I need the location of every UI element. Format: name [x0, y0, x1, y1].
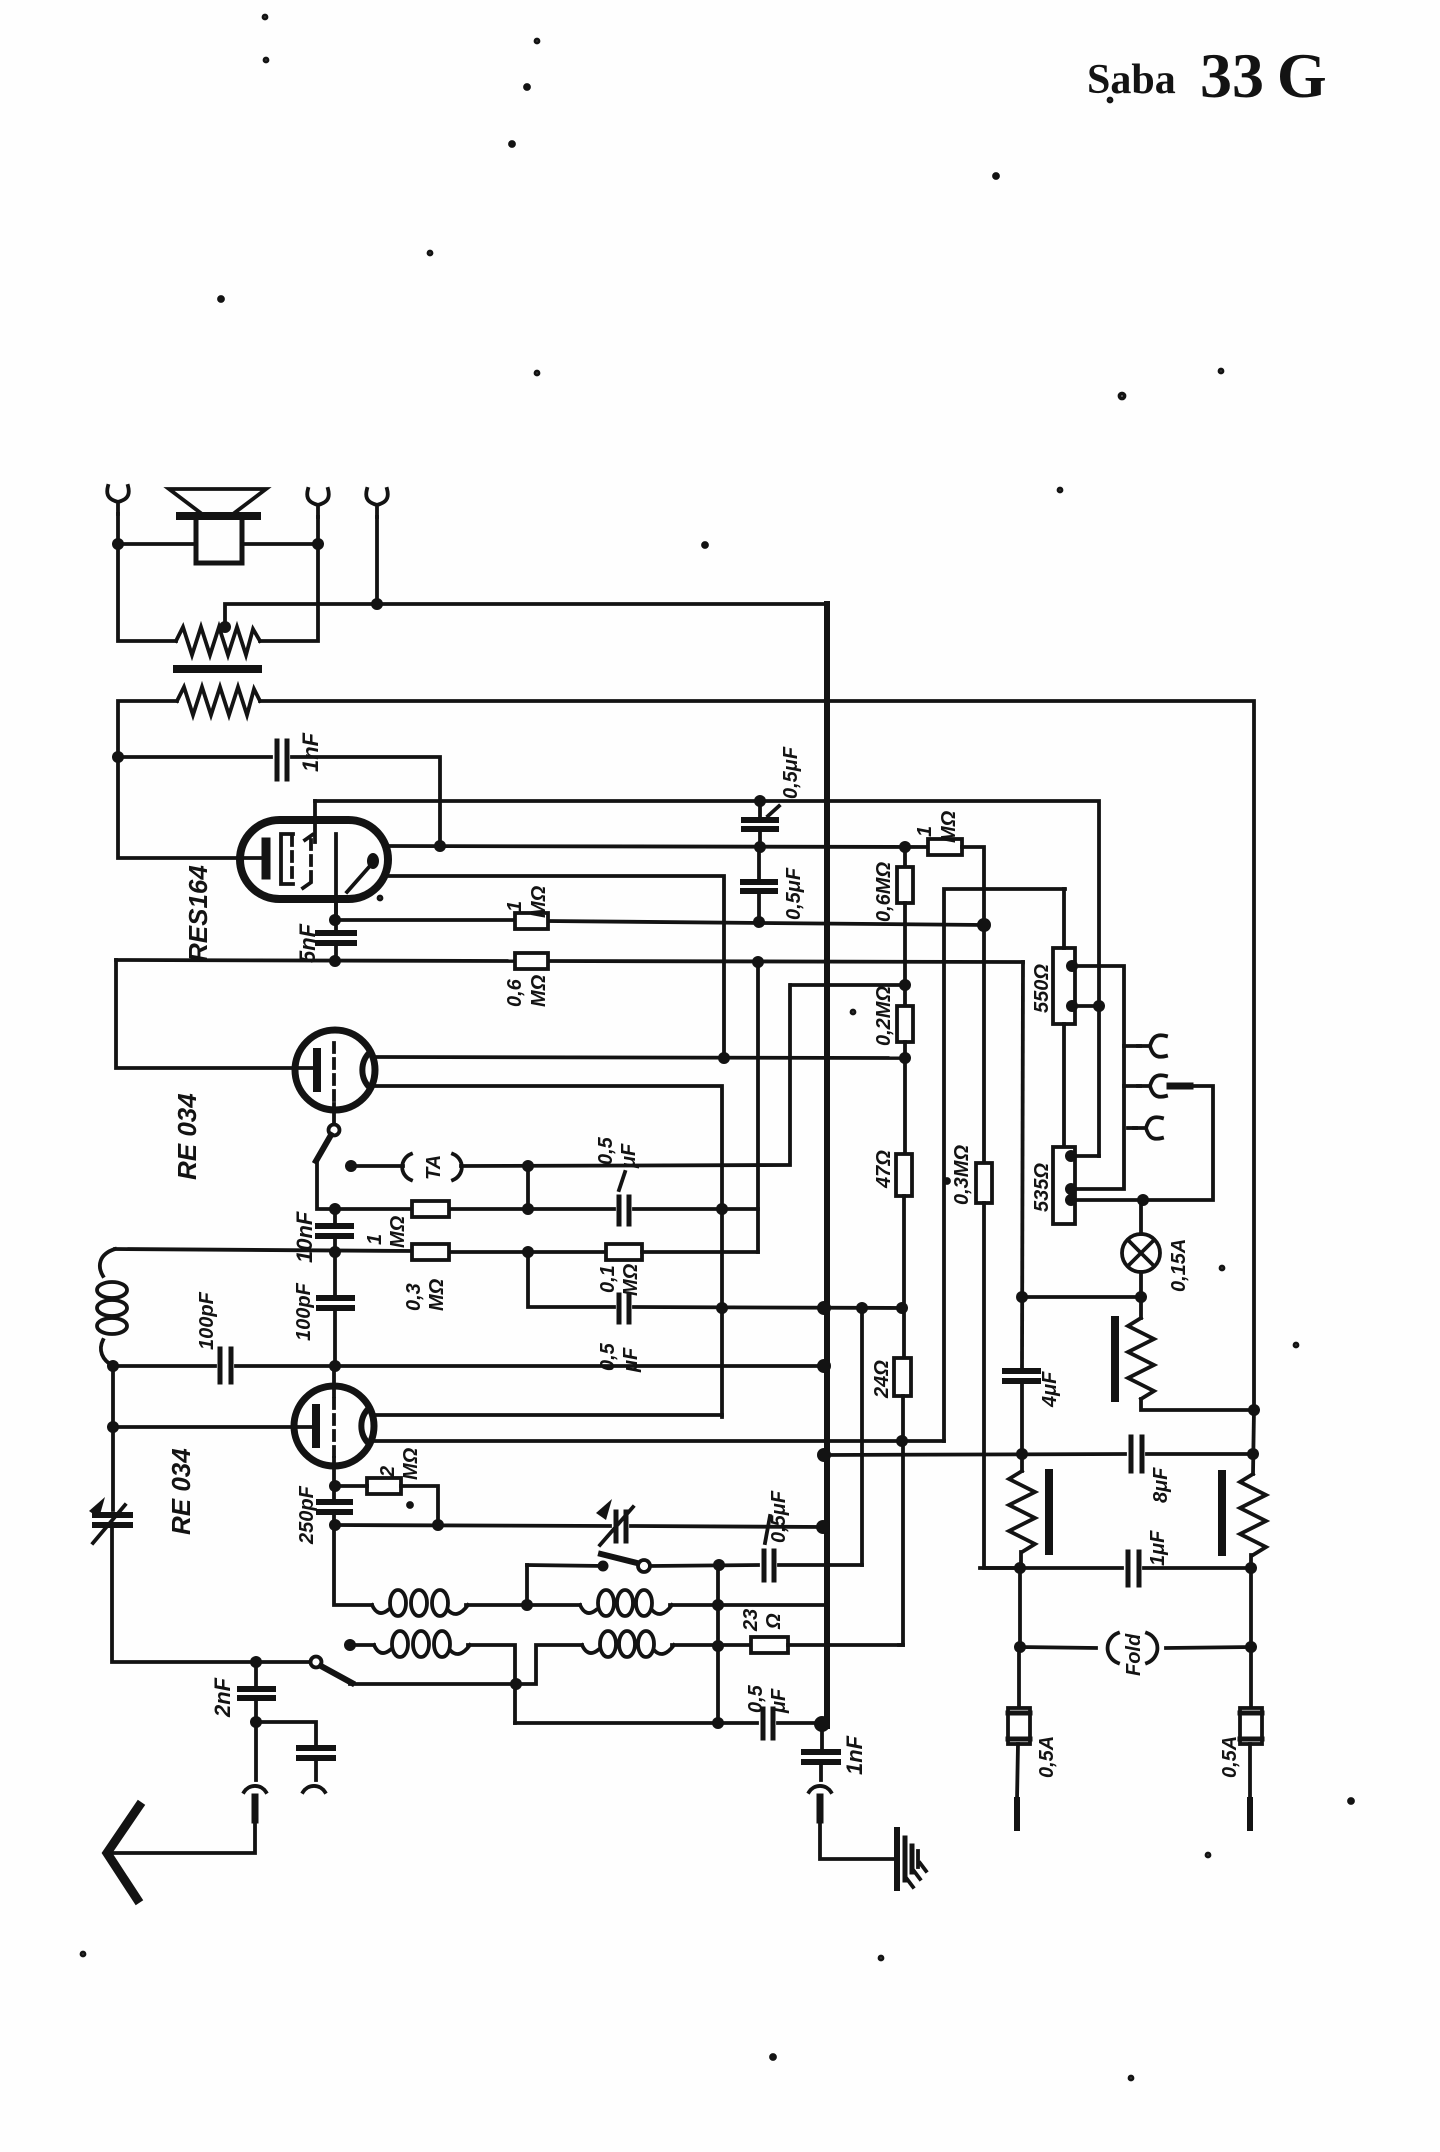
tube RES164 cathode: [262, 842, 271, 875]
wire x528 0,3M-0,5uF link: [528, 1252, 614, 1307]
terminal TA right arc: [453, 1154, 462, 1180]
tube RE034-2 envelope: [295, 1030, 375, 1110]
wire 0,6M chain top: [903, 847, 907, 867]
wire y=1297 4uF link: [1022, 1295, 1141, 1299]
svg-text:0,5: 0,5: [595, 1136, 617, 1165]
resistor 0,3MOhm (y1252): [412, 1244, 449, 1260]
resistor 24Ohm (x902): [894, 1358, 911, 1396]
svg-text:μF: μF: [618, 1143, 640, 1169]
antenna symbol: [107, 1806, 139, 1899]
svg-text:MΩ: MΩ: [528, 974, 550, 1007]
wire y=1568 row: [980, 1566, 1122, 1570]
svg-text:1nF: 1nF: [842, 1735, 867, 1775]
switch S3 lever: [321, 1666, 352, 1683]
wire lamp top: [1139, 1200, 1143, 1234]
wire to left fuse: [1017, 1647, 1021, 1708]
svg-text:24Ω: 24Ω: [871, 1360, 893, 1399]
terminal jack2: [1138, 1075, 1166, 1097]
svg-text:0,6: 0,6: [504, 978, 526, 1007]
wire right drop to pot: [260, 544, 318, 641]
switch S2 (band) contact: [598, 1561, 609, 1572]
svg-text:0,5μF: 0,5μF: [780, 746, 802, 799]
wire 1nF right to grid cap line: [292, 757, 440, 846]
mains lead end right: [1247, 1800, 1253, 1828]
tube RES164 top pin: [313, 801, 317, 842]
svg-text:0,3MΩ: 0,3MΩ: [951, 1145, 973, 1205]
wire y=1252 grid row 2: [115, 1249, 412, 1251]
capacitor 0,5uF (B): [743, 882, 775, 891]
capacitor 100pF (y1365): [220, 1349, 231, 1382]
terminal jack1: [1138, 1035, 1166, 1057]
svg-text:23: 23: [740, 1609, 762, 1632]
svg-text:8μF: 8μF: [1150, 1467, 1172, 1503]
wire lamp bottom: [1139, 1272, 1143, 1318]
wire cap to bus: [778, 1721, 825, 1725]
wire y=1454 filter row: [824, 1454, 1125, 1455]
wire 10nF to y1252: [333, 1238, 337, 1252]
wire y=961 line: [116, 960, 515, 961]
tube RE034-2 anode arc: [362, 1052, 370, 1088]
terminal jack3: [1134, 1117, 1162, 1139]
arrow trimmer: [600, 1507, 633, 1545]
resistor 0,3MOhm (x984): [976, 1163, 992, 1203]
wire Fold row left: [1020, 1647, 1096, 1648]
wire 10nF stem: [333, 1209, 337, 1224]
wire 1uF right: [1144, 1566, 1251, 1570]
plug pin jack2: [1170, 1083, 1190, 1090]
wire L3a lead: [350, 1643, 374, 1647]
wire jack1 lead: [1124, 1044, 1140, 1048]
svg-text:0,5A: 0,5A: [1219, 1736, 1241, 1778]
switch S3 (antenna) circle: [311, 1657, 322, 1668]
speaker LS: [169, 489, 266, 563]
svg-text:33 G: 33 G: [1200, 40, 1327, 111]
resistor R-heater-left zigzag: [1009, 1471, 1035, 1552]
tube RE034-1 cathode wire: [113, 1425, 312, 1429]
socket arc (antenna jack): [244, 1786, 266, 1792]
wire jack3 stub: [1128, 1126, 1136, 1130]
tube RE034-1 anode arc: [361, 1408, 369, 1444]
tube RES164 grid dashed: [290, 836, 294, 884]
tube RES164 grid bracket: [281, 834, 293, 884]
terminal T3: [366, 489, 388, 517]
capacitor 0,5uF (y1565): [764, 1551, 774, 1580]
wire S3 to coil jog: [350, 1682, 515, 1686]
wire T2 stem: [316, 517, 320, 544]
wire 550 top lead: [1062, 889, 1066, 948]
wire 100pF to y1365: [333, 1310, 337, 1365]
wire x1251 to Fold row: [1249, 1555, 1253, 1708]
wire 550 to 535: [1062, 1024, 1066, 1147]
wire x516 down to y1723: [513, 1684, 517, 1723]
potentiometer 535Ohm: [1053, 1147, 1075, 1224]
svg-text:Saba: Saba: [1087, 57, 1176, 103]
coil L3a: [374, 1645, 390, 1653]
switch S1 lever: [316, 1135, 331, 1161]
wire 2nF node to jack: [254, 1722, 258, 1780]
mains lead end left: [1014, 1800, 1020, 1828]
tube RE034-2 grid dashed: [332, 1043, 336, 1104]
wire 550 upper tap: [1075, 966, 1124, 1189]
wire y=921 line: [336, 918, 515, 922]
wire 100pF stem: [333, 1252, 337, 1295]
wire 2nF stems: [254, 1662, 258, 1687]
coil L1 (antenna): [100, 1249, 115, 1276]
terminal TA left arc: [402, 1154, 411, 1180]
wire y=1086 to x722 drop: [373, 1086, 722, 1417]
svg-text:MΩ: MΩ: [620, 1263, 642, 1296]
resistor 0,1MOhm (y1252): [606, 1244, 642, 1260]
wire jog up to L3b: [515, 1645, 582, 1684]
wire TA lead: [351, 1164, 403, 1168]
tube RE034-2 cathode: [313, 1052, 321, 1088]
wire 535 upper tap: [1075, 1154, 1099, 1158]
resistor R-lamp zigzag: [1128, 1318, 1154, 1399]
wire fuse to mains stub: [1017, 1744, 1018, 1800]
wire y=1209 grid row: [449, 1207, 614, 1211]
wire 5nF stems: [334, 899, 338, 931]
wire left vertical lower: [111, 1366, 115, 1510]
svg-text:1μF: 1μF: [1147, 1530, 1169, 1566]
svg-text:Ω: Ω: [763, 1613, 785, 1630]
svg-text:100pF: 100pF: [196, 1291, 218, 1350]
svg-text:0,3: 0,3: [403, 1283, 425, 1311]
resistor 1MOhm (y846): [928, 839, 962, 855]
wire y=1415 pin to x722: [373, 1413, 722, 1417]
wire zigzag2 left down: [118, 701, 177, 757]
tube RES164 anode lead down: [334, 834, 338, 920]
trimmer capacitor (y1526): [616, 1512, 626, 1541]
svg-text:1: 1: [914, 826, 936, 837]
wire 535 bottom tap row: [1075, 1086, 1213, 1200]
variable capacitor C-tune: [95, 1515, 130, 1525]
wire 2M right corner: [401, 1486, 438, 1525]
fuse F1 0,5A: [1008, 1708, 1030, 1744]
wire x718 common vertical: [716, 1565, 720, 1723]
node dots: [112, 538, 124, 550]
resistor 1MOhm (y921): [515, 913, 548, 929]
wire y=876 to 0,2M node: [388, 876, 724, 1058]
svg-text:0,2MΩ: 0,2MΩ: [873, 986, 895, 1046]
capacitor 10nF: [318, 1226, 351, 1236]
wire 24 down corner to 23 row: [899, 1396, 903, 1645]
wire 0,5uF B stems: [757, 847, 761, 880]
wire speaker row y=544: [118, 542, 196, 546]
svg-text:0,6MΩ: 0,6MΩ: [873, 862, 895, 922]
plug pin (earth): [817, 1797, 824, 1820]
capacitor 8uF: [1131, 1437, 1142, 1471]
wire switch node x527: [525, 1565, 529, 1605]
svg-text:MΩ: MΩ: [400, 1447, 422, 1480]
switch S2 circle: [638, 1560, 650, 1572]
wire jack2 lead: [1124, 1084, 1140, 1088]
wire x=1254 right main vertical: [1253, 1410, 1254, 1474]
wire left drop to RE034-2 cathode: [116, 960, 313, 1068]
socket arc (earth jack): [809, 1786, 831, 1792]
coil L3b: [582, 1645, 598, 1653]
svg-text:0,5A: 0,5A: [1036, 1736, 1058, 1778]
tube RES164 grid cap dot: [367, 853, 379, 869]
switch S2 lever: [601, 1554, 637, 1563]
wire 550 lower tap: [1075, 1004, 1099, 1008]
wire y=846 grid-cap line: [388, 846, 928, 847]
wire 47 to 24: [902, 1196, 906, 1358]
wire y=1057 anode RE034-2: [373, 1057, 905, 1058]
svg-text:0,15A: 0,15A: [1168, 1239, 1190, 1292]
fuse F2 0,5A: [1240, 1708, 1262, 1744]
wire zigzag to x1254: [1141, 1399, 1254, 1410]
wire x=944 vertical: [944, 889, 1065, 1441]
svg-text:μF: μF: [768, 1688, 790, 1714]
wire 1nF to jack: [819, 1764, 823, 1780]
tube RES164 screen grid: [303, 833, 315, 888]
wire 0,1M to corner x758: [642, 1250, 758, 1254]
svg-text:0,5: 0,5: [597, 1342, 619, 1371]
wire L2b to bus: [670, 1603, 826, 1607]
wire y=1565 band row: [527, 1565, 603, 1566]
wire y=1441 line (RE034-1 lower pin): [373, 1439, 944, 1443]
potentiometer 550Ohm: [1053, 948, 1075, 1024]
capacitor 250pF: [319, 1502, 350, 1512]
svg-text:0,1: 0,1: [597, 1265, 619, 1293]
wire 100pF right to bus: [236, 1364, 824, 1368]
wire 8uF right: [1147, 1452, 1253, 1456]
svg-text:RES164: RES164: [183, 865, 213, 962]
wire x=1022 rectifier chain top: [1022, 962, 1023, 1369]
svg-text:1nF: 1nF: [298, 732, 323, 772]
capacitor 100pF (x335): [319, 1298, 352, 1308]
resistor 0,6MOhm (x905): [897, 867, 913, 903]
capacitor 0,5uF (A): [744, 820, 776, 829]
socket arc (branch): [303, 1786, 325, 1792]
svg-text:0,5μF: 0,5μF: [783, 867, 805, 920]
svg-text:MΩ: MΩ: [528, 885, 550, 918]
resistor 2MOhm: [367, 1478, 401, 1494]
wire cap to x862 corner: [779, 1563, 862, 1567]
wire x862 link: [860, 1308, 864, 1565]
wire 0,2M to 47: [903, 1042, 907, 1154]
wire bus bottom to 1nF: [820, 1726, 824, 1750]
capacitor 4uF: [1005, 1371, 1038, 1381]
capacitor 0,5uF (y1209): [619, 1197, 629, 1224]
slider bar lamp: [1111, 1320, 1119, 1398]
resistor R-field (speaker zigzag 2): [177, 687, 260, 715]
terminal T1 (speaker left): [107, 486, 129, 514]
wire zigzag to y1568: [1019, 1552, 1023, 1568]
svg-text:RE 034: RE 034: [172, 1093, 202, 1180]
wire x758 vertical: [756, 962, 760, 1252]
capacitor 5nF: [318, 933, 354, 943]
wire T3 stem: [375, 517, 379, 604]
wire y1308 to bus and 24Ohm: [634, 1307, 902, 1308]
wire zigzag2 right long to right column: [260, 701, 1254, 1410]
arrow C-tune: [93, 1505, 125, 1543]
svg-text:4μF: 4μF: [1039, 1371, 1061, 1408]
wire plug to antenna: [110, 1820, 255, 1853]
wire 250pF node down to coil: [334, 1525, 372, 1605]
capacitor 0,5uF (y1307): [619, 1295, 629, 1322]
svg-text:μF: μF: [620, 1347, 642, 1373]
wire left drop to pot: [118, 544, 176, 641]
slider bar left: [1045, 1473, 1053, 1551]
svg-text:MΩ: MΩ: [426, 1278, 448, 1311]
resistor 1MOhm (y1209): [412, 1201, 449, 1217]
capacitor 2nF: [240, 1689, 273, 1698]
tube RE034-1 cathode: [312, 1408, 320, 1444]
wire 0,6M to 0,2M: [903, 903, 907, 1006]
tube RE034-2 grid lead to switch: [332, 1104, 336, 1124]
terminal Fold right arc: [1147, 1633, 1157, 1663]
svg-text:250pF: 250pF: [296, 1485, 318, 1545]
wire y=1365 row: [113, 1364, 215, 1368]
svg-text:MΩ: MΩ: [387, 1215, 409, 1248]
slider bar right: [1218, 1474, 1226, 1552]
switch S1 (gramophone) circle: [329, 1125, 340, 1136]
svg-text:100pF: 100pF: [293, 1282, 315, 1341]
terminal T2: [307, 489, 329, 517]
tube RES164 grid diagonal: [347, 867, 369, 892]
plug pin (antenna): [252, 1797, 259, 1820]
wire 0,3M down to 1uF row: [984, 1203, 1020, 1568]
wire x1021 down to Fold row: [1018, 1568, 1022, 1647]
wire y=1526 row to bus: [334, 1525, 610, 1526]
capacitor C-earth branch: [299, 1748, 333, 1758]
wire 4uF down: [1020, 1383, 1024, 1471]
capacitor 1nF (earth): [804, 1752, 838, 1762]
wire L3a to jog: [468, 1645, 515, 1684]
wire fuse to mains stub right: [1248, 1744, 1252, 1800]
wire y=1723 row: [515, 1721, 757, 1725]
resistor 0,2MOhm (x905): [897, 1006, 913, 1042]
svg-text:MΩ: MΩ: [938, 810, 960, 843]
ground chassis: [897, 1830, 926, 1888]
tube RE034-1 envelope: [294, 1386, 374, 1466]
wire L3b to 23Ohm: [672, 1643, 751, 1647]
tube RES164 envelope: [240, 820, 388, 899]
wire 2nF node to cap branch: [256, 1722, 316, 1744]
svg-text:2nF: 2nF: [210, 1677, 235, 1718]
wire 250pF stems: [332, 1486, 336, 1500]
wire 0,5uF to x758: [634, 1207, 758, 1211]
wire y=985 TA feed: [791, 983, 905, 987]
wire T1 stem: [116, 514, 120, 544]
svg-text:0,5: 0,5: [745, 1684, 767, 1713]
svg-text:2: 2: [377, 1466, 399, 1478]
node TA endpoint: [345, 1160, 357, 1172]
wire S1 to grid row: [317, 1161, 412, 1209]
wire 23Ohm to x903: [788, 1643, 903, 1647]
wire 1nF row: [118, 755, 271, 759]
wire L2a to L2b: [466, 1603, 580, 1607]
svg-text:47Ω: 47Ω: [873, 1150, 895, 1189]
main HT bus (thick): [824, 604, 830, 1726]
coil L2a: [372, 1605, 388, 1613]
wire TA to grid line: [461, 985, 790, 1166]
wire pot tap: [225, 604, 827, 625]
terminal Fold left arc: [1108, 1633, 1118, 1663]
capacitor 0,5uF (y1723): [763, 1709, 773, 1738]
wire x528 TA-1M link: [526, 1166, 530, 1209]
coil L2b: [580, 1605, 596, 1613]
capacitor 1nF (anode feedback): [277, 741, 287, 779]
svg-text:RE 034: RE 034: [166, 1448, 196, 1535]
lamp 0,15A: [1122, 1234, 1160, 1272]
wire y=801 screen line: [315, 801, 1099, 1156]
svg-text:1: 1: [364, 1234, 386, 1245]
svg-text:TA: TA: [423, 1155, 445, 1180]
wire grid node to 2M: [334, 1484, 367, 1488]
resistor 47Ohm (x905): [896, 1154, 912, 1196]
slider bar P1: [177, 665, 258, 673]
resistor 23Ohm: [751, 1637, 788, 1653]
resistor R-heater-right zigzag: [1240, 1474, 1266, 1555]
node terminal L3a: [344, 1639, 356, 1651]
wire Fold row right: [1166, 1647, 1251, 1648]
svg-text:1: 1: [504, 901, 526, 912]
svg-text:5nF: 5nF: [295, 923, 320, 963]
resistor 0,6MOhm (y961): [515, 953, 548, 969]
capacitor 1uF: [1128, 1552, 1139, 1585]
svg-text:Fold: Fold: [1123, 1633, 1145, 1676]
svg-text:550Ω: 550Ω: [1031, 964, 1053, 1013]
wire plug to ground: [820, 1820, 894, 1859]
wire S2 to cap: [650, 1565, 758, 1566]
wire cap to socket: [314, 1760, 318, 1780]
potentiometer P1 (speaker): [176, 627, 260, 655]
wire 1M right corner down x=984: [962, 847, 984, 1163]
svg-text:10nF: 10nF: [292, 1211, 317, 1263]
tube RE034-1 grid line through: [332, 1366, 336, 1396]
wire left vertical to antenna switch: [112, 1529, 310, 1662]
wire 0,5uF A stems: [758, 801, 762, 818]
wire left vertical upper (1nF node to RES164 cathode): [118, 757, 260, 858]
svg-text:535Ω: 535Ω: [1031, 1163, 1053, 1212]
